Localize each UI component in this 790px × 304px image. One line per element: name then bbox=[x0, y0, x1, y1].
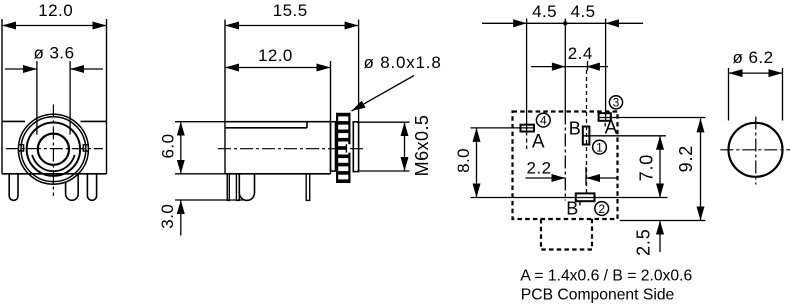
svg-text:2.2: 2.2 bbox=[527, 158, 552, 177]
svg-text:8.0: 8.0 bbox=[454, 148, 473, 173]
svg-text:M6x0.5: M6x0.5 bbox=[412, 115, 432, 177]
svg-text:A: A bbox=[532, 132, 545, 153]
svg-text:PCB Component Side: PCB Component Side bbox=[521, 287, 675, 304]
svg-text:A = 1.4x0.6 / B = 2.0x0.6: A = 1.4x0.6 / B = 2.0x0.6 bbox=[520, 268, 692, 285]
svg-text:9.2: 9.2 bbox=[676, 145, 696, 172]
svg-text:ø 8.0x1.8: ø 8.0x1.8 bbox=[364, 53, 442, 72]
svg-text:3: 3 bbox=[613, 96, 620, 110]
svg-text:4: 4 bbox=[540, 113, 547, 127]
svg-text:7.0: 7.0 bbox=[636, 154, 656, 181]
svg-text:4.5: 4.5 bbox=[571, 2, 596, 21]
svg-text:15.5: 15.5 bbox=[273, 1, 308, 20]
svg-text:B': B' bbox=[566, 198, 581, 218]
svg-text:2.5: 2.5 bbox=[634, 228, 654, 255]
svg-text:4.5: 4.5 bbox=[532, 2, 557, 21]
svg-text:ø 3.6: ø 3.6 bbox=[34, 44, 75, 63]
svg-text:3.0: 3.0 bbox=[158, 204, 177, 229]
svg-text:6.0: 6.0 bbox=[158, 134, 177, 159]
svg-text:2: 2 bbox=[598, 202, 605, 216]
svg-text:1: 1 bbox=[596, 140, 603, 154]
svg-text:A: A bbox=[605, 118, 618, 139]
svg-text:12.0: 12.0 bbox=[258, 46, 293, 65]
svg-text:ø 6.2: ø 6.2 bbox=[733, 48, 774, 67]
svg-text:12.0: 12.0 bbox=[38, 1, 73, 20]
svg-text:B: B bbox=[569, 119, 581, 139]
svg-text:2.4: 2.4 bbox=[568, 44, 593, 63]
